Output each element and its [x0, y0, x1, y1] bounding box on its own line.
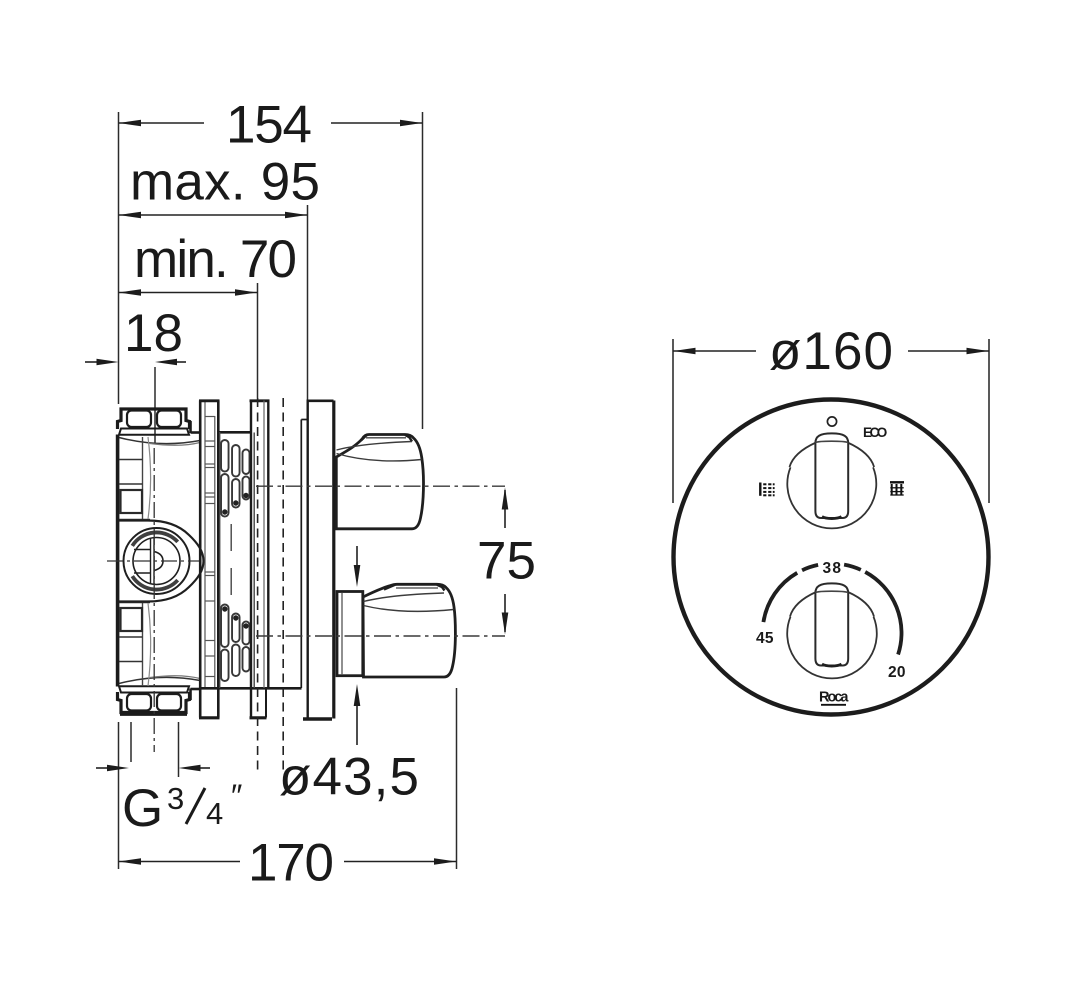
boss centerline: [107, 560, 200, 562]
dim G34: [96, 767, 109, 769]
top knob front: [787, 467, 876, 528]
temperature dial arcs: [763, 565, 901, 655]
svg-text:75: 75: [477, 532, 536, 591]
svg-text:18: 18: [124, 304, 183, 363]
cartridge cylinder edges: [148, 437, 151, 519]
svg-text:170: 170: [248, 834, 334, 893]
wall dashed lines: [257, 398, 259, 774]
dim 75: [504, 490, 506, 528]
front plate circle: [674, 400, 989, 715]
slotted bracket plate: [219, 432, 254, 688]
dim 154: [85, 123, 989, 862]
top hex nut: [118, 409, 190, 435]
bottom knob front: [787, 617, 877, 679]
plate mini centerline: [230, 524, 232, 551]
svg-text:G: G: [122, 779, 163, 838]
mounting rail: [199, 401, 302, 718]
svg-text:max. 95: max. 95: [130, 153, 320, 212]
svg-text:min. 70: min. 70: [134, 230, 297, 289]
trim plate: [301, 401, 334, 720]
dial labels: [756, 560, 906, 681]
dim min70: [119, 292, 258, 294]
svg-text:154: 154: [226, 96, 312, 155]
svg-text:45: 45: [756, 630, 774, 647]
dim labels: [124, 96, 893, 893]
arrowheads: [97, 120, 989, 865]
bottom hex nut: [118, 686, 190, 714]
rail ticks: [205, 417, 215, 677]
svg-text:ø43,5: ø43,5: [279, 748, 419, 807]
dim 170: [119, 861, 241, 863]
svg-text:4: 4: [206, 796, 223, 831]
boss (side port): [119, 521, 204, 602]
label G3/4: [122, 778, 242, 838]
left flow icon: [760, 483, 774, 496]
dim max95: [119, 214, 308, 216]
svg-text:38: 38: [823, 560, 842, 577]
body outline: [118, 421, 200, 700]
top washer curve: [119, 438, 200, 444]
svg-text:ø160: ø160: [769, 322, 893, 381]
extension lines: [119, 112, 457, 869]
body corner steps: [189, 421, 192, 433]
bottom washer curve: [119, 677, 200, 683]
marker o: [827, 417, 836, 426]
dim d160: [673, 350, 756, 352]
bottom collar: [337, 592, 363, 676]
svg-text:Roca: Roca: [819, 690, 849, 706]
bottom knob (side view): [363, 584, 455, 677]
slots: [221, 440, 249, 681]
leader d43: [356, 546, 358, 566]
svg-text:20: 20: [888, 664, 906, 681]
right flow icon: [890, 482, 904, 495]
sleeve: [250, 401, 270, 718]
svg-text:3: 3: [167, 781, 184, 816]
dim 18: [85, 361, 100, 363]
vertical centerline: [153, 448, 155, 752]
svg-text:ECO: ECO: [863, 425, 887, 440]
svg-text:″: ″: [231, 778, 242, 814]
top knob (side view): [336, 435, 423, 529]
horizontal centerlines: [256, 485, 505, 487]
